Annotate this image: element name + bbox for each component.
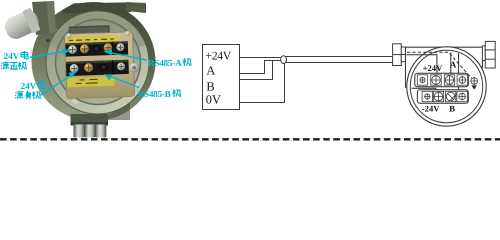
left gland neck xyxy=(401,47,405,62)
terminal strip top xyxy=(415,73,469,87)
arrowhead +24V xyxy=(435,74,439,78)
wire 0V xyxy=(240,63,285,102)
photo backdrop xyxy=(0,0,200,143)
body left rim light xyxy=(43,27,94,120)
callout arrow 24V+ xyxy=(30,51,65,57)
svg-text:24V: 24V xyxy=(21,81,37,91)
plate corner screw TL xyxy=(66,33,72,39)
panel hole right xyxy=(120,41,123,44)
ring top shadow arc xyxy=(53,16,141,46)
bottom screw 4 silver xyxy=(117,62,125,70)
top square 1 xyxy=(417,75,427,85)
left gland nut xyxy=(393,44,402,66)
svg-text:+24V: +24V xyxy=(423,63,443,73)
terminal box xyxy=(203,45,240,110)
top screw 1 xyxy=(68,45,77,54)
body bottom-right shadow xyxy=(95,95,130,120)
top hole 3 xyxy=(93,45,100,52)
transmitter body (photo) xyxy=(32,2,156,121)
conduit cylinder 2 xyxy=(85,125,95,138)
callout arrow RS485-B xyxy=(112,77,140,88)
bottom terminal strip xyxy=(66,60,129,76)
wire +24V xyxy=(240,57,281,59)
yellow label strip bottom xyxy=(67,76,115,87)
yellow label strip top xyxy=(67,36,119,44)
conduit backing xyxy=(74,124,107,137)
plate corner screw TR xyxy=(125,31,131,37)
bottom square 4 xyxy=(457,91,467,101)
hex bolt right xyxy=(129,63,139,73)
wire solid +24V in xyxy=(407,55,437,76)
bottom collar xyxy=(71,114,109,126)
top square 4 xyxy=(457,75,467,85)
svg-text:0V: 0V xyxy=(206,93,221,107)
svg-text:+24V: +24V xyxy=(205,49,231,63)
bottom square 3 xyxy=(445,91,455,101)
body top filler xyxy=(62,2,131,13)
terminal plate group (slight tilt) xyxy=(64,24,140,99)
svg-text:-24V: -24V xyxy=(422,104,440,114)
top screw 2 xyxy=(80,44,89,53)
callout text 24V dianyuan zhengji xyxy=(1,51,29,70)
right gland nut xyxy=(485,41,495,68)
top terminal strip xyxy=(65,41,128,56)
cable line bottom xyxy=(284,62,393,64)
callout arrow 24V- xyxy=(41,75,72,95)
bottom screw 1 xyxy=(70,64,79,73)
top square 2 xyxy=(431,75,441,85)
svg-text:RS485-B: RS485-B xyxy=(138,89,171,99)
ring inner edge xyxy=(56,20,141,105)
right gland neck xyxy=(482,46,485,61)
callout text 24V dianyuan fuji xyxy=(15,81,45,99)
top screw 4 xyxy=(103,43,112,52)
wire B xyxy=(240,61,273,80)
svg-text:RS485-A: RS485-A xyxy=(148,58,182,68)
callout text RS485-B ji xyxy=(138,89,181,99)
wire B drop xyxy=(458,53,460,92)
cable line top xyxy=(284,56,393,58)
wire A xyxy=(240,61,281,74)
baseline dashed rule xyxy=(0,138,500,140)
svg-text:24V: 24V xyxy=(4,51,20,61)
svg-text:B: B xyxy=(449,104,455,114)
wire -24V route xyxy=(412,88,436,92)
arrowhead A xyxy=(449,73,453,77)
callout arrow RS485-A xyxy=(111,53,147,60)
cover ring xyxy=(46,11,149,114)
cable gland green base xyxy=(32,1,56,35)
bottom hole 3 xyxy=(100,63,107,70)
body top-right step xyxy=(126,2,146,13)
housing outer circle xyxy=(407,47,486,126)
cable gland grey cap xyxy=(1,7,42,43)
cable end ellipse xyxy=(281,56,287,64)
conduit cylinder 3 xyxy=(96,125,106,138)
housing inner circle xyxy=(410,50,482,122)
top screw 5 silver xyxy=(116,43,124,51)
bottom square 1 xyxy=(422,91,432,101)
terminal strip bottom xyxy=(417,90,468,104)
conduit cylinder 1 xyxy=(74,125,84,138)
wire dashed to ground xyxy=(407,52,472,78)
ring bottom highlight arc xyxy=(74,80,138,103)
bottom square 2 xyxy=(433,91,443,101)
callout text RS485-A ji xyxy=(148,58,191,68)
top square 3 xyxy=(444,75,454,85)
dark window above plate xyxy=(69,25,110,37)
svg-text:B: B xyxy=(206,80,214,94)
svg-text:A: A xyxy=(206,64,215,78)
flowmeter top bar xyxy=(406,47,483,88)
terminal plate xyxy=(64,32,134,99)
wire A drop xyxy=(450,52,452,74)
svg-text:A: A xyxy=(450,59,457,69)
bottom screw 2 xyxy=(84,63,93,72)
panel hole left xyxy=(46,39,49,42)
ground terminal xyxy=(471,78,478,85)
